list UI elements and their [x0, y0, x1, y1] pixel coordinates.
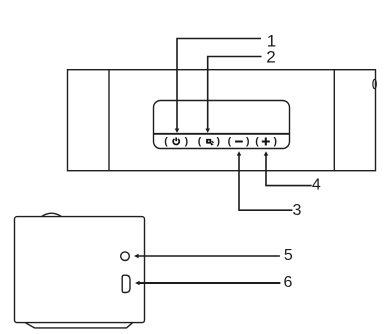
svg-text:(: (	[255, 135, 259, 147]
svg-text:(: (	[164, 135, 168, 147]
svg-text:6: 6	[284, 274, 293, 291]
svg-text:(: (	[228, 135, 232, 147]
svg-text:): )	[273, 135, 277, 147]
svg-text:3: 3	[293, 202, 302, 219]
svg-text:(: (	[198, 135, 202, 147]
svg-text:): )	[246, 135, 250, 147]
svg-text:4: 4	[312, 177, 321, 194]
svg-text:5: 5	[284, 247, 293, 264]
svg-text:2: 2	[266, 48, 275, 67]
svg-text:): )	[185, 135, 189, 147]
svg-text:): )	[216, 135, 220, 147]
